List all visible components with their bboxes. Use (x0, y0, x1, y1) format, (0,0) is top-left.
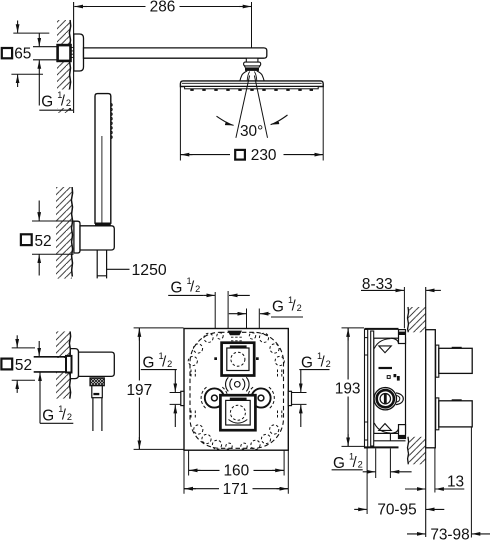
small dots beside top handle (214, 357, 217, 360)
elbow pipe wall clearance (56, 358, 71, 372)
top lug (399, 330, 406, 344)
dim 193 (342, 328, 365, 447)
wall hatch elbow (56, 331, 70, 398)
dim 52 ext lines (32, 221, 74, 254)
1250 leader (107, 268, 130, 270)
head slab inner line (182, 82, 322, 84)
dome bump (396, 393, 403, 405)
lower handle block (439, 401, 472, 427)
G1/2 label top (41, 90, 74, 109)
dim 52 elbow arrows (16, 335, 18, 347)
wall face line (73, 2, 75, 113)
svg-text:171: 171 (223, 481, 249, 498)
center safestop element (235, 382, 241, 388)
upper handle block (439, 348, 472, 373)
svg-text:13: 13 (447, 473, 464, 490)
dim 286 ext line right (251, 2, 253, 48)
square symbol 52 elbow (1, 359, 12, 370)
wall torn edge elbow (69, 331, 70, 398)
mounting strip outer (365, 329, 368, 448)
top ext lines pair2 (247, 309, 260, 329)
dim 197 (134, 328, 184, 450)
elbow square nut (66, 356, 72, 373)
ball joint taper (244, 66, 260, 68)
stick inner line (101, 136, 103, 223)
elbow knurled nut (90, 378, 104, 386)
square symbol 65 (2, 48, 12, 58)
svg-text:197: 197 (127, 382, 153, 399)
shower arm (84, 48, 267, 58)
right port circle (251, 388, 270, 407)
left side tab (181, 391, 184, 405)
hand shower stick (95, 94, 111, 224)
stick spray knurl (111, 104, 112, 139)
wall hatch middle (56, 187, 72, 279)
thread marks (71, 48, 74, 58)
top ext lines pair1 (215, 291, 228, 328)
svg-text:30°: 30° (240, 123, 263, 140)
G1/2 leader elbow (39, 373, 41, 424)
dim 65 arrows (17, 21, 19, 33)
pipe stub lines (33, 47, 58, 60)
port circle arcs (201, 387, 228, 409)
svg-text:65: 65 (14, 46, 31, 63)
hose connector band (93, 393, 99, 395)
bottom lug (399, 425, 406, 439)
holder body (80, 226, 114, 250)
hose (97, 250, 107, 278)
top outlet stub (228, 331, 243, 336)
ball joint nut (246, 58, 258, 62)
lower handle plate (436, 398, 439, 430)
elbow body (79, 352, 115, 376)
inner arrow to arm top (38, 33, 40, 46)
strip ticks (365, 338, 368, 440)
lower V mark (379, 424, 392, 431)
elbow pipe stub lines (34, 357, 66, 372)
dim 73-98 (470, 428, 472, 538)
bottom stem lines (374, 433, 406, 440)
svg-text:52: 52 (15, 357, 32, 374)
left port circle (205, 388, 224, 407)
hose connector (92, 386, 103, 398)
wall torn edge (69, 20, 70, 110)
svg-text:73-98: 73-98 (430, 526, 469, 540)
upper V mark (379, 346, 392, 353)
side bracket marks (191, 370, 282, 420)
right side tab (288, 391, 291, 405)
30 deg arrows (217, 116, 234, 125)
nozzle dots (190, 89, 313, 91)
dim 230 ext lines (180, 86, 323, 161)
stub detail marks (231, 337, 244, 341)
dim 52 arrows (38, 201, 40, 221)
ball dark band (245, 67, 259, 71)
elbow flange (70, 349, 78, 379)
tiny square mark (387, 376, 390, 379)
bottom cap (365, 446, 399, 448)
bottom handle square (220, 395, 255, 430)
top cap (365, 328, 399, 330)
rough-in dashed obround (190, 332, 284, 448)
shower head slab (180, 81, 323, 87)
wall hatch upper (side view) (408, 307, 426, 332)
wall face line (425, 287, 427, 537)
tiny dark marks (394, 374, 397, 377)
wall hatch top (57, 20, 70, 113)
dim 230 line (180, 154, 323, 156)
dim 171 (184, 450, 288, 493)
head mount flare (240, 71, 247, 81)
throat arc (374, 339, 390, 349)
svg-text:193: 193 (335, 381, 361, 398)
trim plate (426, 330, 436, 448)
cartridge circle (374, 388, 396, 410)
holder flange (74, 221, 80, 253)
head lower band (185, 87, 319, 89)
G1/2 leader arrow (38, 60, 40, 105)
dim 65 ext lines (11, 33, 49, 74)
top corner arc (391, 338, 399, 343)
dim 52 elbow ext lines (12, 348, 35, 380)
G1/2 label elbow (40, 422, 74, 424)
top handle square (222, 343, 255, 376)
screw boss circles (188, 333, 284, 450)
wall torn edge middle (71, 187, 72, 277)
ball joint collar (244, 62, 261, 66)
svg-text:1250: 1250 (132, 262, 167, 279)
svg-text:70-95: 70-95 (377, 502, 416, 519)
elbow hose (93, 398, 102, 431)
svg-text:52: 52 (35, 233, 52, 250)
wall hatch lower (side view) (408, 437, 426, 465)
bottom corner arc (391, 429, 399, 434)
dim 286 line (74, 6, 251, 8)
square symbol 230 (235, 150, 245, 160)
30 deg lines (236, 76, 268, 138)
small bar (379, 367, 393, 369)
dim 70-95 (366, 449, 368, 515)
svg-text:230: 230 (251, 147, 277, 164)
valve body main (374, 338, 406, 433)
G1/2 square nut (58, 45, 71, 61)
arm flange (74, 34, 84, 71)
dim 160 (189, 450, 285, 475)
svg-text:160: 160 (223, 463, 249, 480)
square symbol 52 mid (21, 234, 32, 245)
stick bottom band (95, 223, 111, 226)
svg-text:286: 286 (150, 0, 176, 16)
mounting strip inner (371, 331, 374, 446)
upper handle plate (436, 345, 439, 377)
inner arrow to pipe top (38, 341, 40, 356)
front plate (184, 329, 288, 451)
